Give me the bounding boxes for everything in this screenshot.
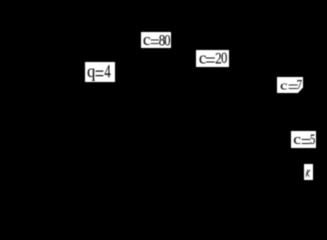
label box c=7 [277,77,303,93]
svg-text:c: c [280,79,288,93]
label text c=5 [293,131,315,153]
svg-text:5: 5 [310,131,315,147]
svg-text:0: 0 [164,32,170,50]
svg-text:c: c [293,132,301,147]
label box c=20 [196,50,229,67]
svg-text:=: = [95,61,104,86]
label text c=7 [280,77,302,98]
svg-text:7: 7 [297,77,302,92]
svg-text:=: = [205,50,216,71]
label box c=5 [291,131,316,148]
svg-text:0: 0 [221,50,227,68]
label box q=4 [85,62,115,82]
label text c=80 [143,30,171,52]
label text c=20 [199,49,227,72]
svg-text:4: 4 [104,62,110,82]
label box kappa [304,164,313,180]
label text q=4 [87,60,111,86]
label box c=80 [141,32,171,48]
label text kappa [306,170,310,177]
